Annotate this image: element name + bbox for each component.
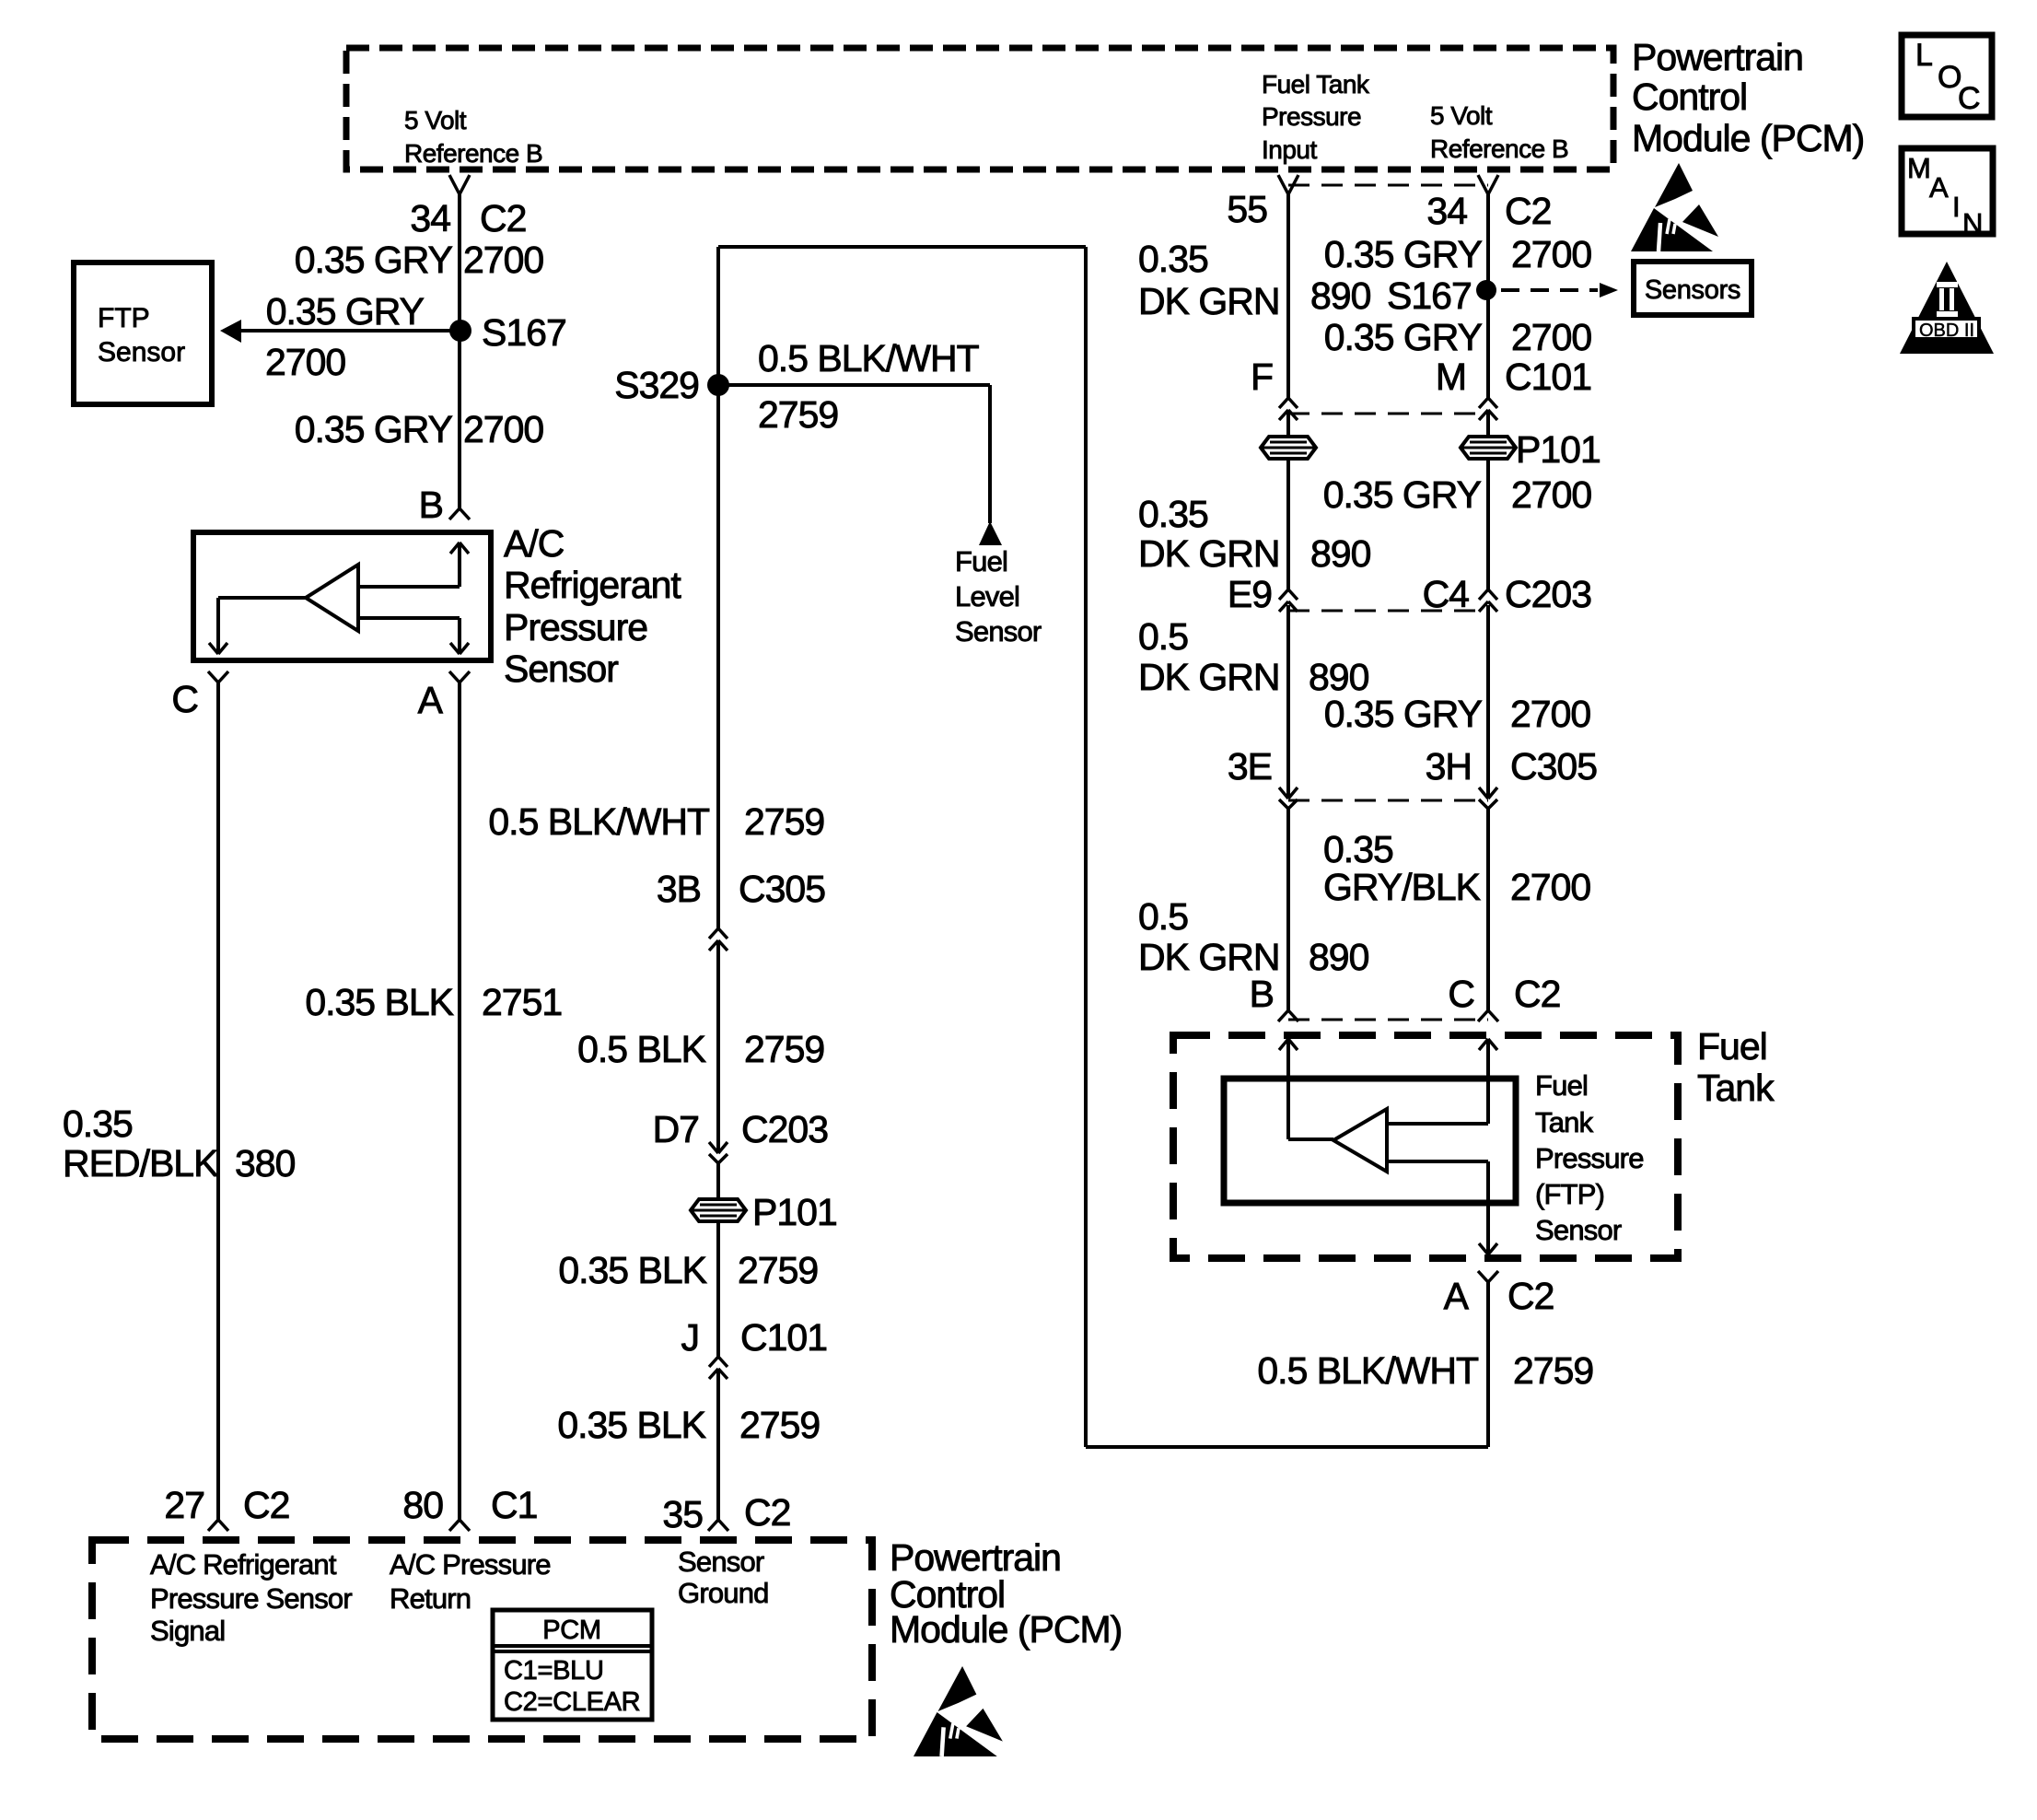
connector A below A/C sensor <box>449 671 460 682</box>
svg-text:2759: 2759 <box>739 1404 820 1446</box>
svg-text:(FTP): (FTP) <box>1535 1178 1604 1210</box>
svg-text:C101: C101 <box>740 1316 827 1359</box>
svg-text:E9: E9 <box>1228 573 1272 615</box>
svg-text:0.35 GRY: 0.35 GRY <box>295 408 453 450</box>
svg-text:C305: C305 <box>1510 745 1597 787</box>
svg-text:0.35 GRY: 0.35 GRY <box>1324 693 1483 735</box>
svg-text:F: F <box>1251 356 1273 398</box>
svg-text:2700: 2700 <box>1510 866 1590 908</box>
PCM module outline (bottom, dashed) <box>92 1540 872 1739</box>
svg-text:0.35 GRY: 0.35 GRY <box>266 290 425 332</box>
svg-text:Sensor: Sensor <box>98 337 185 367</box>
svg-text:0.35 BLK: 0.35 BLK <box>305 981 453 1023</box>
svg-text:5 Volt: 5 Volt <box>1430 101 1493 130</box>
connector 34 C2 at PCM (top left) <box>449 175 460 194</box>
svg-text:M: M <box>1907 152 1930 184</box>
svg-text:S167: S167 <box>1387 274 1472 317</box>
svg-text:C2: C2 <box>1514 973 1560 1015</box>
svg-text:0.35: 0.35 <box>1323 828 1393 870</box>
svg-text:C305: C305 <box>739 868 825 910</box>
svg-text:0.5: 0.5 <box>1138 615 1188 658</box>
svg-text:Tank: Tank <box>1535 1106 1594 1138</box>
connector C305 pin 3E <box>1279 787 1288 799</box>
wire 0.35 DK GRN 890 (55 to F) <box>1286 194 1290 398</box>
svg-text:Fuel Tank: Fuel Tank <box>1262 70 1370 99</box>
Fuel Tank Pressure sensor box <box>1224 1079 1516 1203</box>
svg-text:C2: C2 <box>1505 190 1551 232</box>
FTP Sensor box <box>74 262 212 404</box>
connector C203 boundary (thin dashed) <box>1288 610 1488 612</box>
connector C2 pin C (FTP sensor) <box>1478 1010 1488 1021</box>
svg-text:0.35 GRY: 0.35 GRY <box>1324 316 1483 358</box>
svg-text:2700: 2700 <box>1510 693 1590 735</box>
splice S167 (right) <box>1476 280 1496 300</box>
connector 27 C2 at PCM (bottom) <box>208 1520 218 1531</box>
svg-text:Sensor: Sensor <box>678 1546 764 1578</box>
svg-text:N: N <box>1962 207 1983 239</box>
svg-text:Sensor: Sensor <box>504 647 618 690</box>
wire 0.35 RED/BLK 380 (C to PCM 27) <box>216 682 220 1520</box>
svg-text:Sensors: Sensors <box>1645 275 1740 305</box>
connector C2 boundary (thin dashed) <box>1288 184 1488 187</box>
wire from S329 up and over to fuel tank branch <box>716 247 720 385</box>
svg-text:C2=CLEAR: C2=CLEAR <box>504 1687 640 1717</box>
svg-text:Tank: Tank <box>1697 1067 1775 1109</box>
svg-text:B: B <box>419 484 443 526</box>
svg-text:FTP: FTP <box>98 303 150 333</box>
svg-text:3H: 3H <box>1426 745 1472 787</box>
svg-text:A: A <box>418 679 444 721</box>
svg-text:DK GRN: DK GRN <box>1138 656 1279 698</box>
svg-text:DK GRN: DK GRN <box>1138 280 1279 322</box>
svg-text:C2: C2 <box>1507 1275 1554 1317</box>
svg-text:Refrigerant: Refrigerant <box>504 564 681 606</box>
grommet P101 (middle) <box>691 1199 746 1221</box>
svg-text:A/C Pressure: A/C Pressure <box>390 1548 551 1581</box>
wire 0.35 GRY 2700 (C4 to 3H) <box>1486 605 1490 799</box>
svg-text:34: 34 <box>1426 190 1467 232</box>
svg-text:0.35: 0.35 <box>63 1102 133 1145</box>
connector C101 boundary (thin dashed) <box>1288 413 1488 415</box>
svg-text:C1: C1 <box>491 1484 537 1526</box>
svg-text:A: A <box>1929 171 1949 204</box>
svg-text:380: 380 <box>235 1142 296 1184</box>
svg-text:2700: 2700 <box>463 408 543 450</box>
PCM module outline (top, dashed) <box>346 48 1613 169</box>
A/C sensor internal arrow up (pin B feed) <box>458 542 461 587</box>
svg-text:A/C Refrigerant: A/C Refrigerant <box>150 1548 337 1581</box>
svg-text:C203: C203 <box>1505 573 1591 615</box>
svg-text:L: L <box>1915 38 1933 73</box>
svg-text:0.35: 0.35 <box>1138 238 1208 280</box>
svg-text:890: 890 <box>1310 274 1371 317</box>
svg-text:Powertrain: Powertrain <box>1632 36 1803 78</box>
svg-text:Module (PCM): Module (PCM) <box>890 1608 1122 1651</box>
svg-text:Pressure: Pressure <box>1262 102 1361 131</box>
wire 0.35 GRY 2700 (34 to M) <box>1486 194 1490 398</box>
wire 0.35 BLK 2759 (D7 to J) <box>716 1163 720 1357</box>
ESD-sensitive symbol (bottom) <box>914 1666 1003 1756</box>
connector C305 pin 3H <box>1479 787 1488 799</box>
svg-text:890: 890 <box>1309 936 1369 978</box>
svg-text:C4: C4 <box>1423 573 1470 615</box>
svg-text:55: 55 <box>1227 188 1267 230</box>
connector C below A/C sensor <box>208 671 218 682</box>
MAIN reference box <box>1902 148 1993 234</box>
svg-text:C: C <box>1958 81 1981 116</box>
svg-text:0.5 BLK/WHT: 0.5 BLK/WHT <box>1257 1349 1479 1392</box>
svg-text:Fuel: Fuel <box>1697 1025 1767 1067</box>
A/C sensor internal top lead <box>358 585 460 589</box>
svg-text:5 Volt: 5 Volt <box>404 106 467 134</box>
wire 0.5 DK GRN 890 (E9 to 3E) <box>1286 605 1290 799</box>
svg-text:C1=BLU: C1=BLU <box>504 1656 604 1686</box>
grommet P101 (left wire) <box>1261 437 1316 459</box>
FTP sensor internal top lead <box>1387 1122 1488 1126</box>
svg-text:J: J <box>681 1316 700 1359</box>
connector 35 C2 at PCM (bottom) <box>708 1520 718 1531</box>
svg-text:2759: 2759 <box>1513 1349 1593 1392</box>
wire 0.5 BLK/WHT 2759 (A to S329) <box>1486 1282 1490 1447</box>
svg-text:Control: Control <box>1632 76 1747 118</box>
svg-text:0.5: 0.5 <box>1138 895 1188 938</box>
svg-text:3E: 3E <box>1228 745 1272 787</box>
wire 0.35 GRY 2700 branch to FTP Sensor <box>241 329 460 332</box>
svg-text:Ground: Ground <box>678 1577 769 1609</box>
LOC reference box <box>1902 35 1992 117</box>
svg-text:S329: S329 <box>614 364 699 406</box>
svg-text:0.35 GRY: 0.35 GRY <box>1323 473 1482 516</box>
svg-text:3B: 3B <box>657 868 701 910</box>
svg-text:35: 35 <box>662 1493 703 1535</box>
svg-text:B: B <box>1250 973 1274 1015</box>
svg-text:S167: S167 <box>482 311 566 354</box>
svg-text:0.35 BLK: 0.35 BLK <box>558 1249 706 1291</box>
connector 55 at PCM <box>1278 175 1288 194</box>
svg-text:890: 890 <box>1310 532 1371 575</box>
connector C101 pin F <box>1279 398 1288 408</box>
FTP sensor internal bottom lead <box>1387 1160 1488 1163</box>
wire into fuel tank (C side) <box>1486 1039 1490 1124</box>
svg-text:C2: C2 <box>744 1491 790 1534</box>
splice S167 <box>449 320 471 342</box>
svg-text:Pressure Sensor: Pressure Sensor <box>150 1582 352 1615</box>
connector C203 pin E9 <box>1279 589 1288 600</box>
svg-text:P101: P101 <box>1516 428 1600 471</box>
wire 0.35 GRY 2700 (PCM 34 C2 to S167 to A/C sensor B) <box>458 194 461 508</box>
svg-text:27: 27 <box>164 1484 204 1526</box>
svg-text:0.5 BLK/WHT: 0.5 BLK/WHT <box>488 800 710 843</box>
svg-text:2700: 2700 <box>463 239 543 281</box>
svg-text:RED/BLK: RED/BLK <box>63 1142 218 1184</box>
A/C Refrigerant Pressure Sensor box <box>193 532 491 660</box>
svg-text:OBD II: OBD II <box>1919 321 1974 341</box>
svg-text:A/C: A/C <box>504 522 565 565</box>
connector C101 pin J <box>709 1357 718 1367</box>
fuel level sensor arrow <box>979 521 1002 545</box>
svg-text:2700: 2700 <box>1511 316 1591 358</box>
svg-text:Sensor: Sensor <box>955 615 1042 647</box>
svg-text:C: C <box>1448 973 1474 1015</box>
svg-text:C101: C101 <box>1505 356 1591 398</box>
svg-text:80: 80 <box>402 1484 443 1526</box>
connector C2 boundary at fuel tank (thin dashed) <box>1288 1019 1488 1021</box>
wire 0.35 BLK 2759 (J to PCM 35) <box>716 1369 720 1520</box>
svg-text:0.5 BLK/WHT: 0.5 BLK/WHT <box>758 337 980 379</box>
svg-text:GRY/BLK: GRY/BLK <box>1323 866 1481 908</box>
svg-text:2700: 2700 <box>1511 233 1591 275</box>
arrowhead to FTP Sensor <box>220 320 241 343</box>
svg-text:2751: 2751 <box>482 981 562 1023</box>
A/C sensor internal amplifier triangle <box>306 565 358 631</box>
wire 0.35 GRY/BLK 2700 (3H to C) <box>1486 809 1490 1010</box>
svg-text:2700: 2700 <box>1511 473 1591 516</box>
svg-text:2759: 2759 <box>744 1028 824 1070</box>
connector 34 C2 at PCM (right) <box>1478 175 1488 194</box>
svg-text:0.5 BLK: 0.5 BLK <box>577 1028 706 1070</box>
svg-text:Signal: Signal <box>150 1615 225 1647</box>
svg-text:Level: Level <box>955 580 1019 612</box>
svg-text:I: I <box>1952 191 1960 223</box>
svg-text:Reference B: Reference B <box>404 139 542 168</box>
svg-text:0.35: 0.35 <box>1138 493 1208 535</box>
wire 0.35 GRY 2700 (M to C4) <box>1486 410 1490 589</box>
Sensors reference box <box>1634 262 1752 315</box>
connector C101 pin M <box>1479 398 1488 408</box>
svg-text:2700: 2700 <box>265 341 345 383</box>
svg-text:C2: C2 <box>480 197 526 239</box>
svg-text:Sensor: Sensor <box>1535 1214 1622 1246</box>
svg-text:PCM: PCM <box>542 1616 601 1645</box>
dashed reference arrow to Sensors <box>1501 288 1598 292</box>
svg-text:2759: 2759 <box>738 1249 818 1291</box>
svg-text:2759: 2759 <box>744 800 824 843</box>
PCM connector legend box <box>493 1610 652 1720</box>
ESD-sensitive symbol (top) <box>1631 163 1718 251</box>
svg-text:C2: C2 <box>243 1484 289 1526</box>
wire 0.35 DK GRN 890 (F to E9) <box>1286 410 1290 589</box>
svg-text:Fuel: Fuel <box>1535 1069 1588 1102</box>
svg-text:Fuel: Fuel <box>955 545 1007 577</box>
svg-text:P101: P101 <box>752 1191 837 1233</box>
svg-text:0.35 BLK: 0.35 BLK <box>557 1404 705 1446</box>
wire 0.5 BLK/WHT 2759 (S329 down to C305 3B) <box>716 385 720 928</box>
FTP sensor internal triangle <box>1333 1109 1387 1172</box>
wire 0.35 BLK 2751 (A to PCM 80) <box>458 682 461 1520</box>
svg-text:M: M <box>1436 356 1466 398</box>
connector C203 pin D7 <box>709 1142 718 1153</box>
svg-text:D7: D7 <box>653 1108 699 1150</box>
wire 0.5 DK GRN 890 (3E to B) <box>1286 809 1290 1010</box>
svg-text:0.35 GRY: 0.35 GRY <box>1324 233 1483 275</box>
connector C2 pin B (FTP sensor) <box>1278 1010 1288 1021</box>
A/C sensor internal output lead <box>218 596 306 600</box>
wire 0.5 BLK/WHT 2759 (S329 to fuel level sensor) <box>718 383 990 387</box>
svg-text:2759: 2759 <box>758 393 838 436</box>
svg-text:Module (PCM): Module (PCM) <box>1632 117 1864 159</box>
FTP sensor internal output lead <box>1288 1137 1333 1141</box>
connector C305 boundary (thin dashed) <box>1288 799 1488 802</box>
wire 0.5 BLK 2759 (3B to D7) <box>716 940 720 1153</box>
svg-text:C: C <box>171 678 198 720</box>
svg-text:Return: Return <box>390 1582 471 1615</box>
svg-text:Pressure: Pressure <box>1535 1142 1644 1174</box>
svg-text:Pressure: Pressure <box>504 606 647 648</box>
svg-text:Reference B: Reference B <box>1430 134 1568 163</box>
svg-text:Input: Input <box>1262 135 1317 164</box>
grommet P101 (right wire) <box>1461 437 1516 459</box>
svg-text:DK GRN: DK GRN <box>1138 532 1279 575</box>
connector C305 pin 3B <box>709 928 718 939</box>
svg-text:34: 34 <box>410 197 450 239</box>
connector A C2 below fuel tank <box>1478 1271 1488 1282</box>
splice S329 <box>707 374 729 396</box>
svg-text:0.35 GRY: 0.35 GRY <box>295 239 453 281</box>
connector 80 C1 at PCM (bottom) <box>449 1520 460 1531</box>
Fuel Tank outline (dashed) <box>1173 1035 1678 1258</box>
wire into fuel tank (B side) <box>1286 1039 1290 1139</box>
svg-text:A: A <box>1444 1275 1470 1317</box>
A/C sensor internal bottom lead <box>358 616 460 620</box>
connector B at A/C sensor <box>449 508 460 519</box>
svg-text:C203: C203 <box>741 1108 828 1150</box>
connector C203 pin C4 <box>1479 589 1488 600</box>
OBD II triangle symbol <box>1900 262 1994 354</box>
